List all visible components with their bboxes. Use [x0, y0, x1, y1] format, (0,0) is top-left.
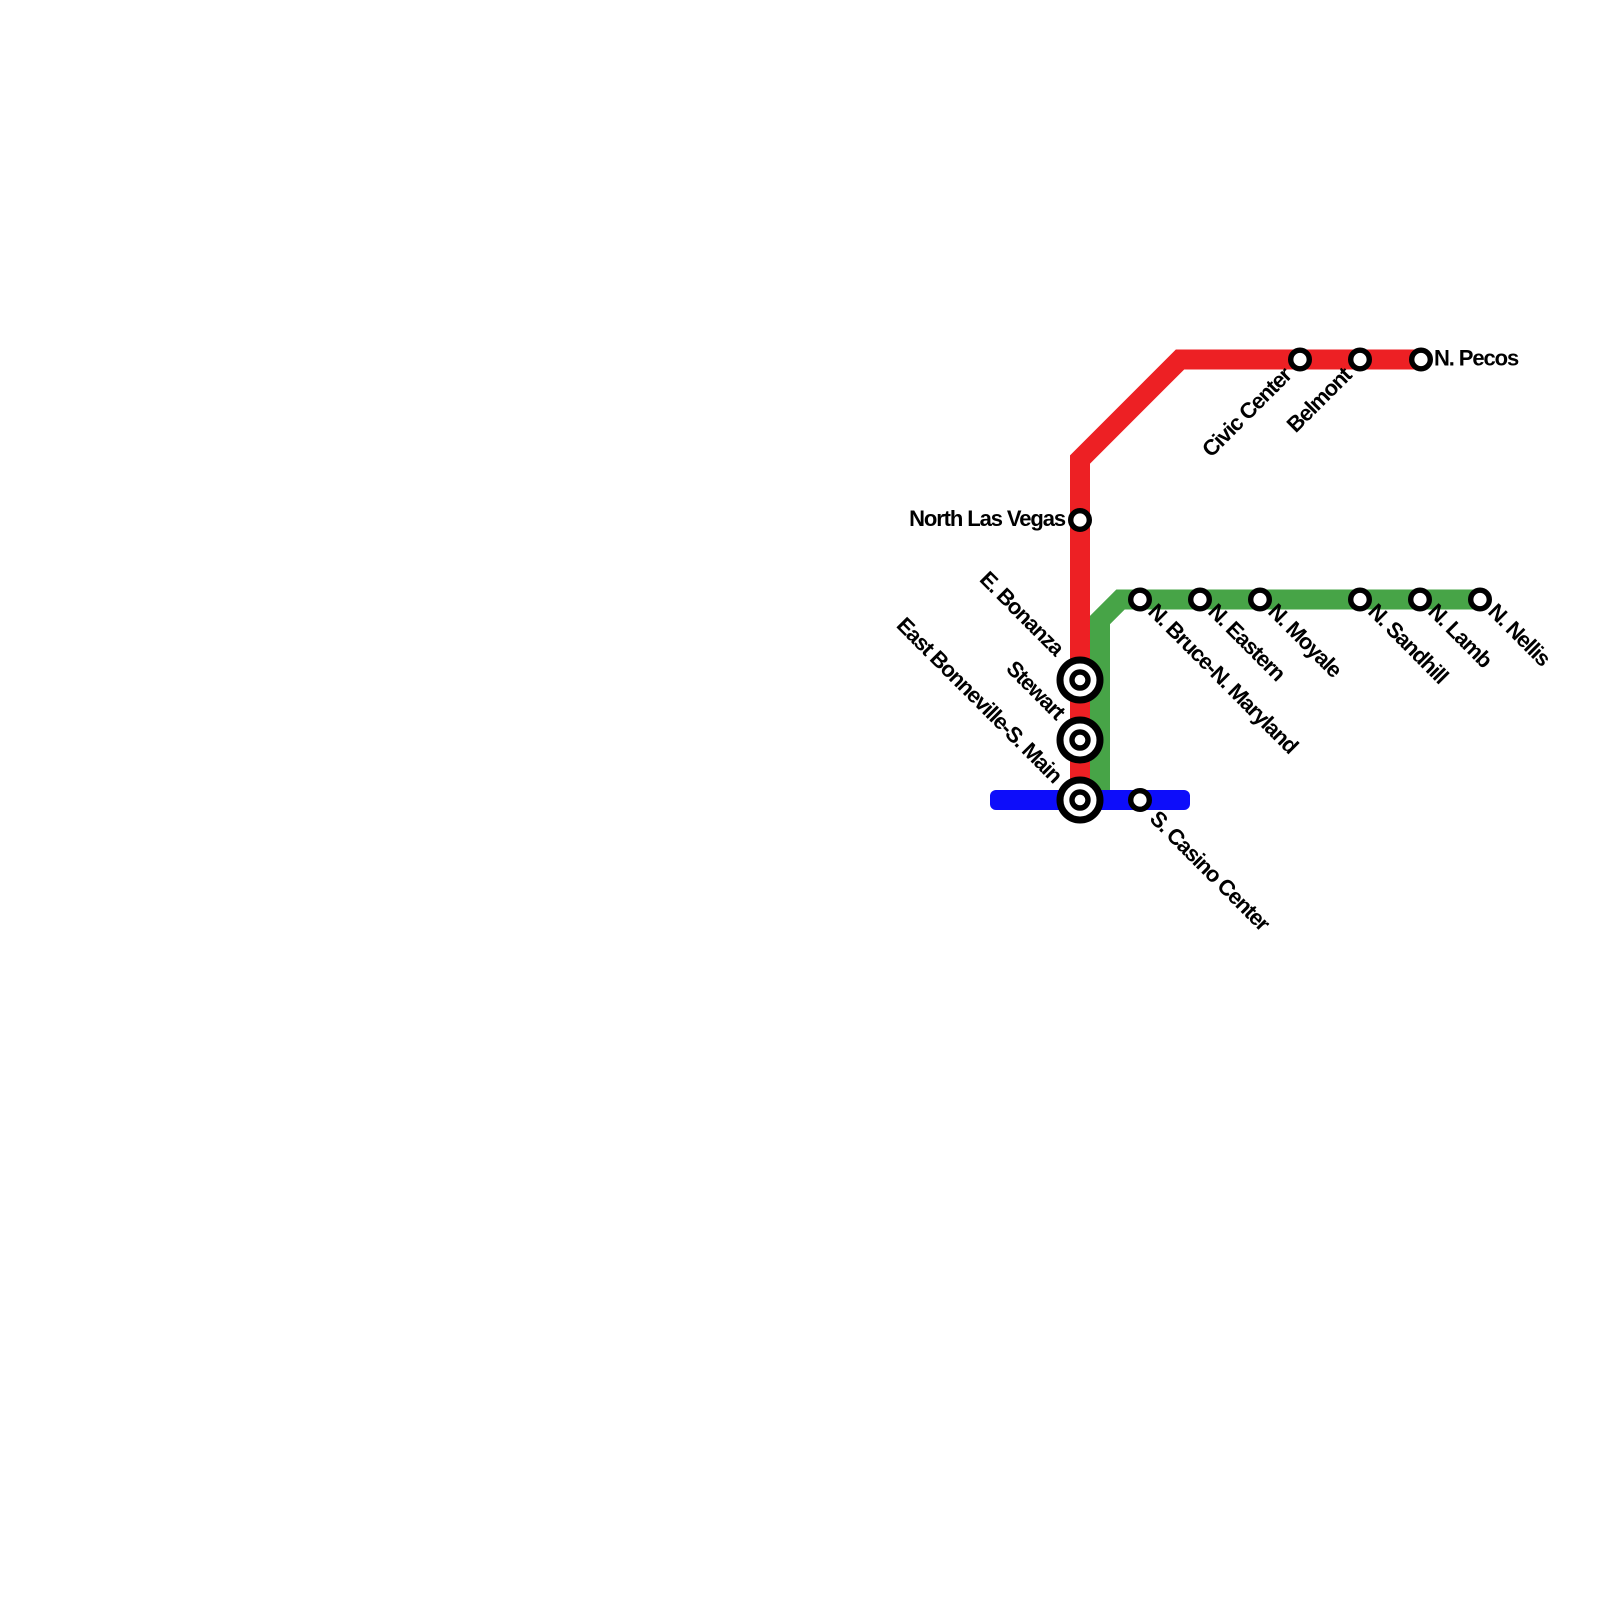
interchange East Bonneville-S. Main	[1060, 780, 1100, 820]
station N. Lamb	[1411, 590, 1430, 609]
station N. Moyale	[1251, 590, 1270, 609]
red line	[1080, 360, 1421, 801]
interchange E. Bonanza	[1060, 660, 1100, 700]
station Belmont	[1351, 350, 1370, 369]
station North Las Vegas	[1071, 511, 1090, 530]
station N. Bruce-N. Maryland	[1131, 590, 1150, 609]
svg-text:North Las Vegas: North Las Vegas	[909, 506, 1066, 531]
station N. Sandhill	[1351, 590, 1370, 609]
interchange Stewart	[1060, 720, 1100, 760]
blue line	[990, 790, 1190, 810]
station Civic Center	[1291, 350, 1310, 369]
svg-text:N. Pecos: N. Pecos	[1434, 346, 1519, 371]
green line	[1100, 600, 1480, 801]
station S. Casino Center	[1131, 791, 1150, 810]
station N. Eastern	[1191, 590, 1210, 609]
station N. Pecos	[1412, 350, 1431, 369]
station N. Nellis	[1471, 590, 1490, 609]
